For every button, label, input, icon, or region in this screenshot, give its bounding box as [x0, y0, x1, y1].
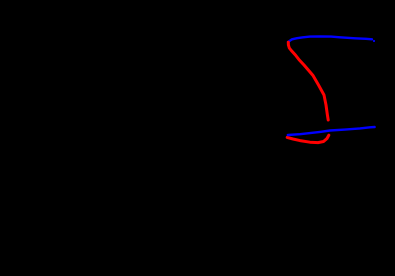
unstable branch upper segment (red): [288, 42, 328, 120]
end dot of upper branch: [373, 40, 375, 42]
unstable branch lower hook segment (red): [287, 135, 329, 142]
lower stable branch (blue): [288, 127, 375, 135]
upper stable branch (blue): [288, 36, 372, 42]
